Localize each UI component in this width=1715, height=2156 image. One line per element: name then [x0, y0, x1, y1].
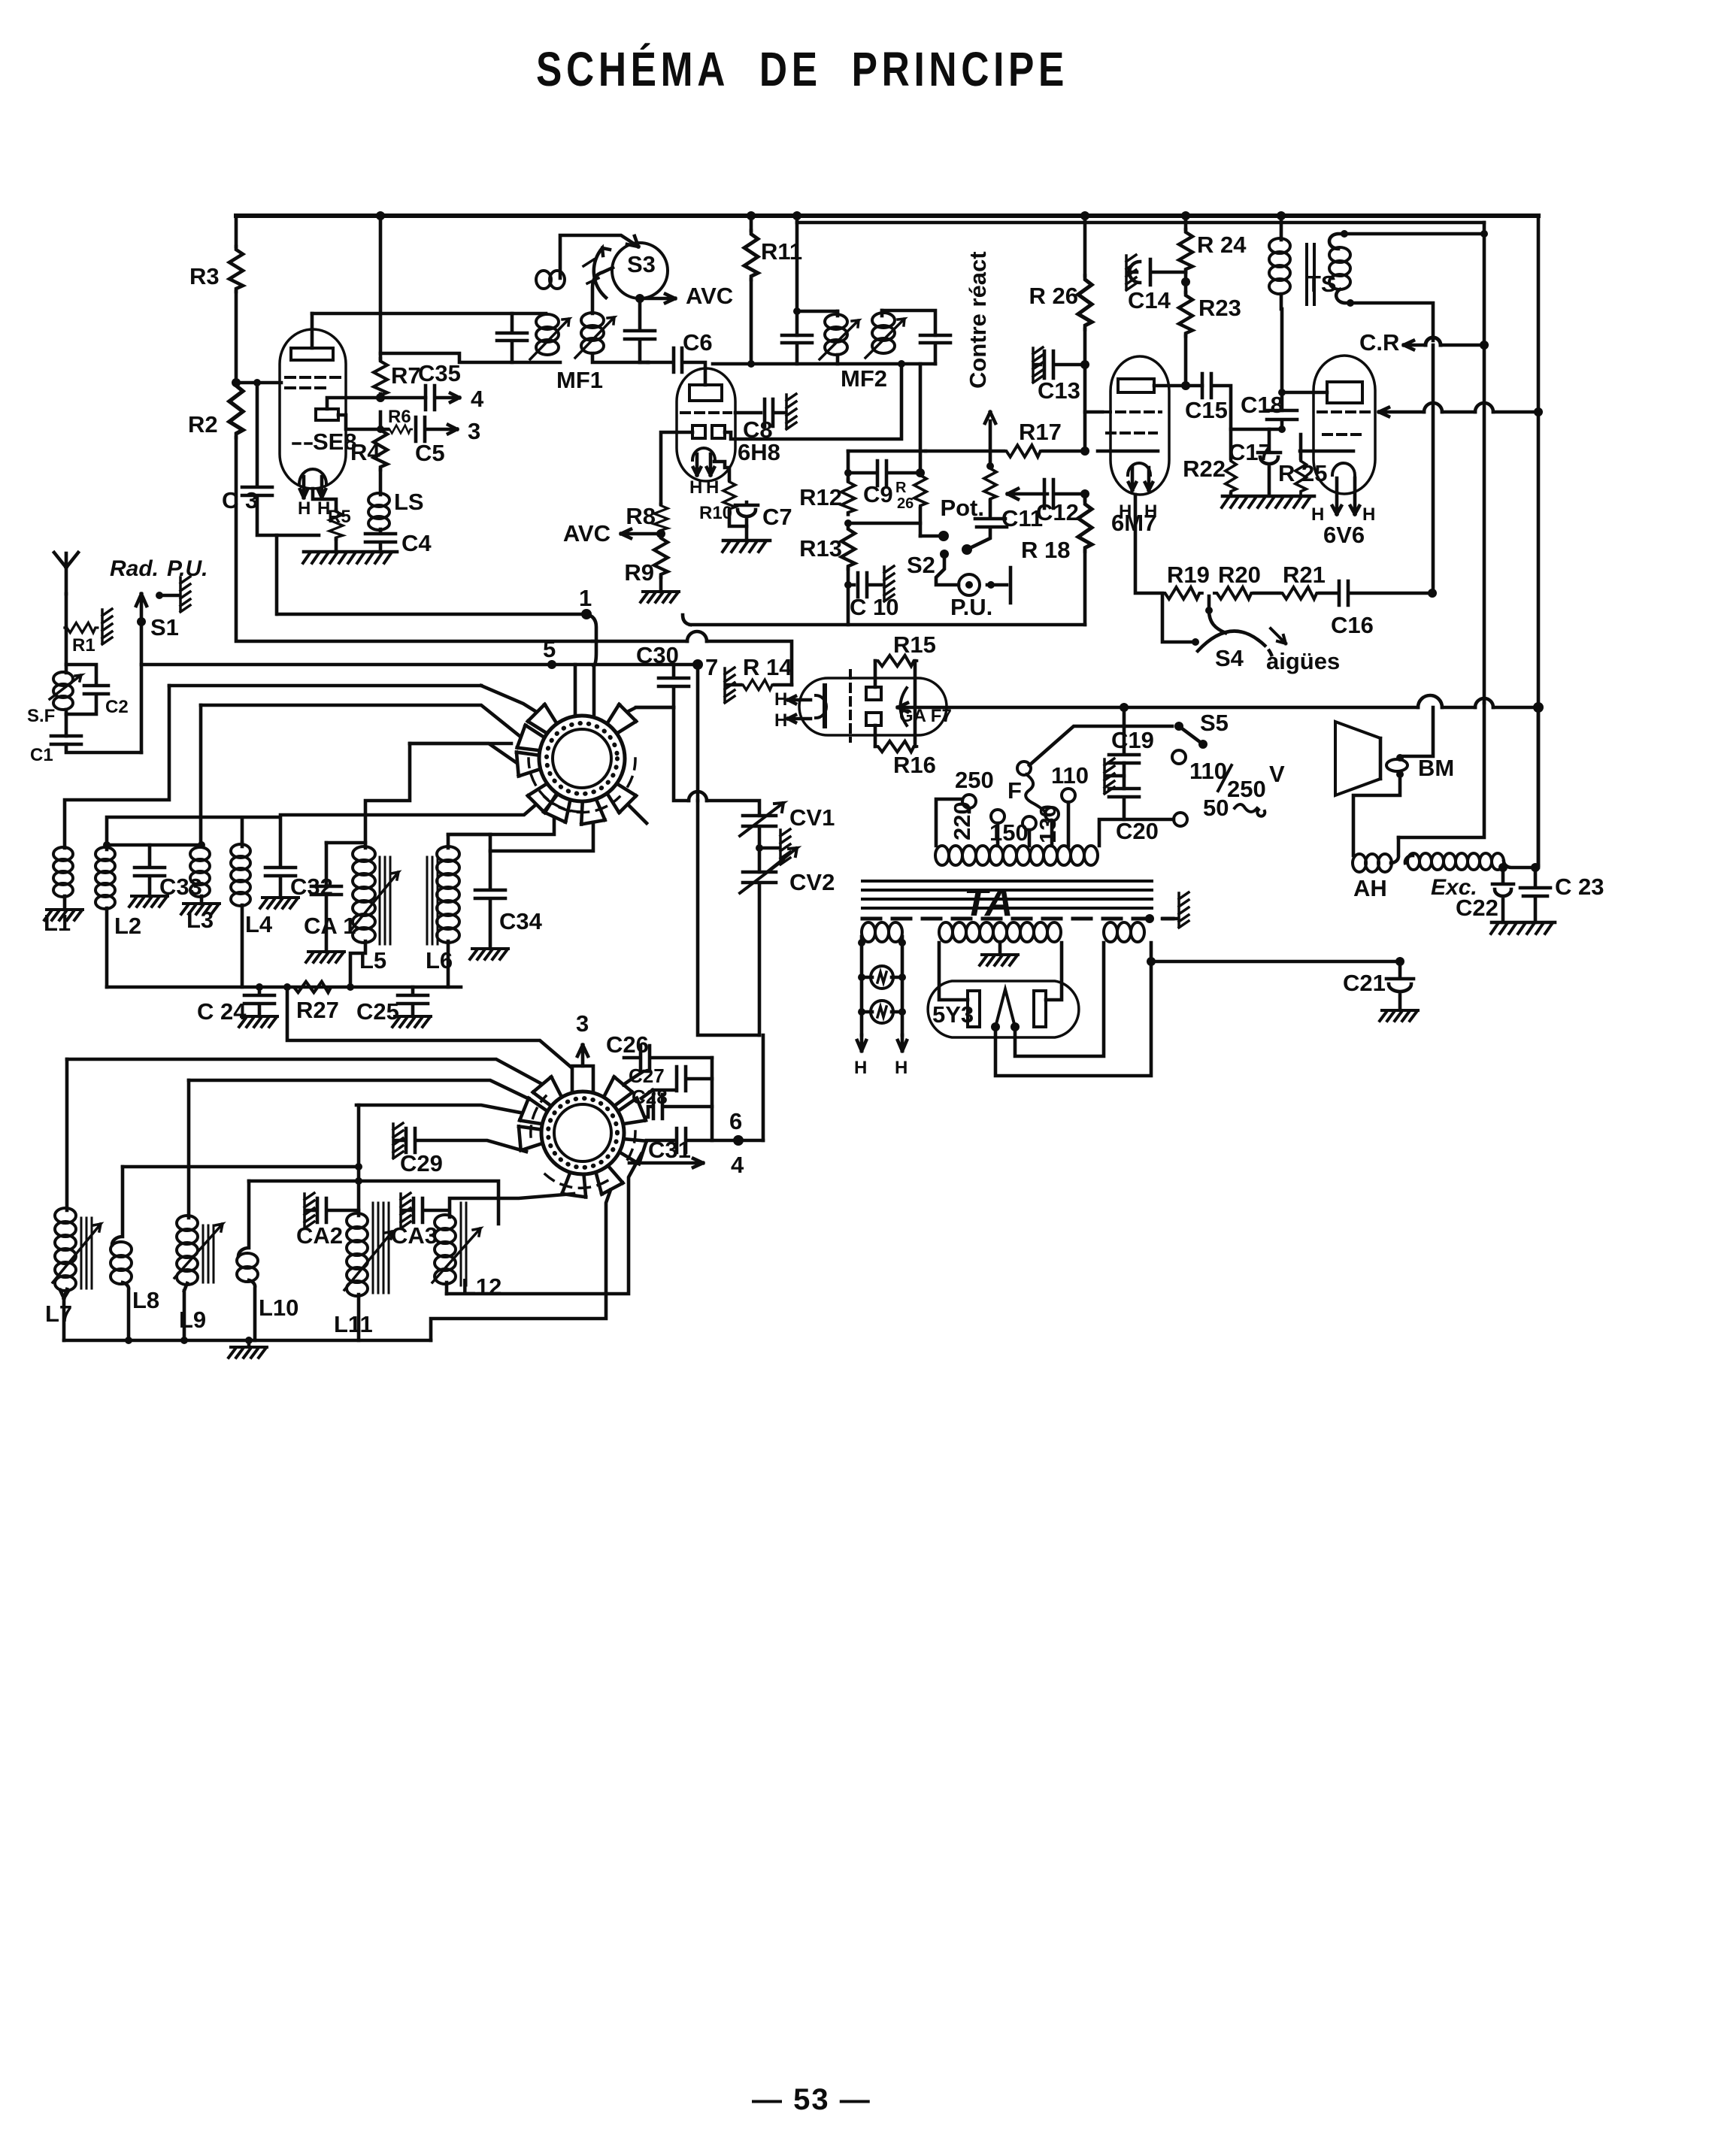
- svg-text:3: 3: [576, 1010, 589, 1037]
- wire feedback vertical: [1483, 223, 1486, 703]
- capacitor C17: [1258, 429, 1280, 494]
- svg-text:250: 250: [1227, 776, 1266, 802]
- svg-text:130: 130: [1035, 804, 1061, 843]
- capacitor C8: [735, 399, 784, 426]
- SE8 heater: [299, 469, 326, 484]
- wire line L3 feed: [201, 705, 520, 736]
- svg-text:CV1: CV1: [789, 804, 835, 831]
- capacitor C20: [1109, 789, 1174, 819]
- coil L7 with core: [65, 1059, 69, 1210]
- GAF7 plates: [866, 687, 881, 700]
- svg-text:R27: R27: [296, 997, 339, 1023]
- coil L6 with core: [437, 846, 459, 943]
- svg-text:F: F: [1007, 777, 1022, 804]
- wafer 2 paddles: [572, 1066, 593, 1092]
- resistor R1: [65, 622, 98, 632]
- svg-text:1: 1: [579, 585, 592, 611]
- svg-text:C 10: C 10: [850, 594, 898, 620]
- svg-text:H: H: [298, 498, 311, 519]
- coil TS secondary: [1329, 234, 1344, 249]
- svg-text:R10: R10: [699, 503, 732, 523]
- wire C.R line: [1404, 341, 1484, 350]
- svg-text:H: H: [774, 689, 787, 710]
- lamp dial 2: [862, 1010, 902, 1014]
- primary tap 130: [1045, 807, 1059, 821]
- svg-text:4: 4: [471, 386, 484, 412]
- svg-text:6: 6: [729, 1108, 742, 1134]
- wire TS sec bottom: [1350, 303, 1433, 341]
- capacitor C13: [1033, 347, 1043, 383]
- svg-text:L6: L6: [426, 947, 453, 974]
- SE8 anode: [291, 348, 333, 360]
- wire 6M7 cathode to R19 chain: [1135, 495, 1162, 593]
- coil TS primary: [1280, 216, 1283, 240]
- capacitor MF1 tuning: [497, 313, 527, 362]
- capacitor C33: [135, 845, 165, 896]
- resistor R24: [1179, 229, 1192, 272]
- wire grid lead: [236, 381, 281, 385]
- wire bus1 bottom: [277, 613, 586, 616]
- wire TS sec top: [1344, 232, 1484, 236]
- svg-text:R19: R19: [1167, 562, 1210, 588]
- svg-text:AVC: AVC: [686, 283, 733, 309]
- svg-text:H: H: [706, 477, 719, 498]
- capacitor C24: [256, 983, 354, 991]
- svg-text:R7: R7: [391, 362, 421, 389]
- coil L8: [112, 1167, 123, 1245]
- svg-text:TA: TA: [964, 881, 1013, 925]
- resistor R20: [1214, 587, 1254, 599]
- svg-text:S5: S5: [1200, 710, 1229, 736]
- svg-text:R21: R21: [1283, 562, 1326, 588]
- svg-text:L7: L7: [45, 1301, 72, 1327]
- 6V6 anode: [1327, 382, 1362, 403]
- ground 6H8 cathode: [723, 539, 770, 543]
- capacitor C31: [647, 1128, 712, 1152]
- svg-text:5: 5: [543, 636, 556, 662]
- wire line L5 feed to wafer left: [410, 742, 511, 746]
- node pot top junction: [986, 462, 994, 470]
- svg-text:H: H: [854, 1058, 867, 1078]
- resistor R12: [841, 480, 855, 515]
- svg-text:S4: S4: [1215, 645, 1244, 671]
- svg-text:C31: C31: [648, 1137, 691, 1163]
- svg-text:C20: C20: [1116, 818, 1159, 844]
- wire wafer line to CV1: [674, 707, 759, 816]
- wire grid line into eye: [898, 703, 907, 712]
- resistor R3: [229, 247, 243, 292]
- wire rail to wafer2 top: [287, 987, 571, 1067]
- svg-text:C9: C9: [863, 481, 893, 507]
- svg-text:C 24: C 24: [197, 998, 247, 1025]
- svg-text:R22: R22: [1183, 456, 1226, 482]
- wire cap bus to node 6: [712, 1058, 763, 1140]
- AVC arrow left: [621, 529, 661, 538]
- primary tap 220: [991, 810, 1004, 823]
- coil AH: [1353, 854, 1392, 872]
- svg-text:R1: R1: [72, 635, 95, 656]
- wire lower bank interconnects: [123, 1165, 359, 1169]
- 6M7 grid dashed: [1102, 412, 1161, 433]
- fuse F: [1017, 762, 1031, 775]
- capacitor C35: [426, 386, 459, 410]
- svg-text:C.R: C.R: [1359, 329, 1399, 356]
- svg-text:AH: AH: [1353, 875, 1387, 901]
- capacitor MF1 sec tuning: [625, 298, 655, 362]
- resistor R25: [1299, 435, 1303, 459]
- svg-text:C22: C22: [1456, 895, 1498, 921]
- 6V6 grid dashed: [1318, 412, 1371, 435]
- capacitor C34: [475, 834, 505, 949]
- wire wafer1 S prong to C34: [490, 822, 593, 851]
- coil MF2 primary: [836, 311, 840, 316]
- svg-text:L11: L11: [334, 1311, 373, 1337]
- coil TA HV secondary: [939, 922, 1061, 942]
- capacitor C2: [66, 665, 108, 714]
- coil L10: [238, 1181, 249, 1256]
- trimmer CA1: [311, 843, 341, 952]
- capacitor C9 line: [848, 461, 920, 486]
- svg-text:R23: R23: [1198, 295, 1241, 321]
- svg-text:H: H: [1311, 504, 1324, 525]
- capacitor C7: [735, 502, 758, 541]
- heater arrows H H: [857, 1035, 907, 1051]
- svg-text:C19: C19: [1111, 727, 1154, 753]
- node S3 out: [635, 294, 644, 303]
- wire speaker line vertical: [1432, 345, 1435, 589]
- svg-text:C15: C15: [1185, 397, 1228, 423]
- coil L11: [357, 1105, 361, 1216]
- svg-text:110: 110: [1189, 758, 1227, 784]
- svg-text:250: 250: [955, 767, 994, 793]
- capacitor C5: [416, 417, 457, 441]
- variable capacitor CV1: [743, 816, 776, 872]
- SE8 screen rect: [316, 409, 338, 420]
- core L11/CA3: [373, 1203, 389, 1293]
- svg-text:C14: C14: [1128, 287, 1171, 313]
- wire wafer1 SSW prong to L6: [448, 819, 554, 834]
- svg-text:3: 3: [468, 418, 480, 444]
- svg-text:4: 4: [731, 1152, 744, 1178]
- svg-text:S3: S3: [627, 251, 656, 277]
- hatch between C19 C20: [1123, 763, 1126, 789]
- svg-text:C26: C26: [606, 1031, 649, 1058]
- capacitor C25: [398, 987, 428, 1016]
- svg-text:6H8: 6H8: [738, 439, 780, 465]
- resistor R11: [750, 216, 753, 231]
- wire wafer2 left lines: [67, 1059, 541, 1083]
- svg-text:S1: S1: [150, 614, 179, 640]
- svg-text:150: 150: [989, 819, 1029, 846]
- coil MF2 secondary: [880, 310, 884, 316]
- svg-text:GA F7: GA F7: [899, 706, 952, 726]
- wire MF2 sec top: [882, 310, 935, 335]
- coil BM voice coil: [1386, 759, 1407, 771]
- svg-text:H: H: [689, 477, 702, 498]
- wiper arrow from C12: [1007, 489, 1047, 499]
- capacitor C28: [645, 1095, 712, 1119]
- resistor R19: [1162, 587, 1202, 599]
- svg-text:CA 1: CA 1: [304, 913, 356, 939]
- resistor R14: [725, 668, 735, 703]
- coil L1: [53, 847, 73, 897]
- svg-text:L3: L3: [186, 907, 214, 933]
- resistor R10 cathode: [714, 462, 729, 480]
- pickup P.U. jack: [959, 574, 980, 595]
- svg-text:H: H: [895, 1058, 907, 1078]
- wire C19 top to fuse F: [1123, 707, 1126, 726]
- svg-text:MF1: MF1: [556, 367, 603, 393]
- resistor R9: [654, 535, 668, 577]
- wire triode plate lead to C5 line: [338, 415, 388, 429]
- coil S.F: [53, 672, 73, 710]
- wire node7 branch to R14: [592, 641, 792, 685]
- wafer 1 paddles: [517, 704, 636, 825]
- svg-text:S.F: S.F: [27, 706, 55, 726]
- svg-text:R8: R8: [626, 503, 656, 529]
- svg-text:C25: C25: [356, 998, 399, 1025]
- wire MF1 sec bottom: [592, 353, 648, 362]
- svg-text:R9: R9: [624, 559, 654, 586]
- svg-text:C27: C27: [629, 1064, 665, 1087]
- svg-text:R 24: R 24: [1197, 232, 1247, 258]
- variable capacitor CV2: [743, 872, 776, 1035]
- wire anode to MF1 top: [312, 312, 546, 316]
- resistor R26b (series detector): [914, 473, 926, 508]
- svg-text:C29: C29: [400, 1150, 443, 1176]
- speaker cone: [1335, 722, 1380, 795]
- wire mains feed to S5: [1029, 726, 1124, 765]
- coil MF1 primary: [536, 314, 559, 355]
- svg-text:R2: R2: [188, 411, 218, 438]
- svg-text:R16: R16: [893, 752, 936, 778]
- GAF7 heater: [816, 695, 826, 718]
- tube 6M7 envelope: [1111, 356, 1169, 495]
- tube 6H8 envelope: [677, 368, 735, 481]
- svg-text:7: 7: [705, 654, 718, 680]
- wire wafer2 NE paddle to C26: [623, 1071, 648, 1085]
- ground bar 6V6: [1223, 495, 1314, 498]
- svg-text:R 14: R 14: [743, 654, 792, 680]
- capacitor C32: [265, 868, 295, 898]
- capacitor C16: [1339, 581, 1432, 605]
- switch S3: [612, 243, 668, 298]
- resistor R2: [229, 382, 243, 438]
- rectifier 5Y3: [928, 981, 1079, 1037]
- svg-text:C35: C35: [418, 360, 461, 386]
- wire MF2 bottom line: [713, 362, 935, 366]
- coil TA primary: [935, 846, 1098, 865]
- switch S4: [1209, 596, 1226, 633]
- resistor R8: [654, 504, 668, 532]
- SE8 grid dashed: [286, 377, 340, 388]
- AVC arrow: [640, 294, 675, 303]
- coil Exc field: [1405, 854, 1413, 863]
- contact hatch R1: [102, 609, 112, 644]
- svg-text:R 26: R 26: [1029, 283, 1078, 309]
- svg-text:H: H: [774, 710, 787, 731]
- 6V6 heater: [1332, 463, 1355, 475]
- GAF7 grid dashed: [849, 671, 852, 741]
- wire node7 column to wafer2: [698, 801, 759, 1035]
- svg-text:Contre réact: Contre réact: [965, 251, 991, 389]
- capacitor C14: [1126, 255, 1136, 290]
- wire TS primary bottom to anode: [1280, 309, 1284, 410]
- svg-text:L1: L1: [44, 910, 71, 936]
- antenna: [54, 553, 78, 594]
- capacitor MF2 primary tuning: [782, 335, 812, 364]
- capacitor C21: [1386, 961, 1414, 1009]
- capacitor C26: [641, 1046, 712, 1070]
- tube 6V6 envelope: [1314, 356, 1375, 494]
- switch S2: [938, 531, 972, 559]
- wire diode left to R8: [661, 432, 692, 504]
- wire wafer1 stem from buses: [575, 665, 594, 714]
- wire wafer1 SE prong: [629, 805, 647, 823]
- wire R12 top to R17 line: [847, 451, 850, 480]
- GAF7 cathode bar: [823, 686, 827, 726]
- capacitor C30: [636, 665, 689, 707]
- wire L4 top feed: [107, 817, 280, 866]
- node junction dots on top bus: [376, 211, 1286, 220]
- svg-text:aigües: aigües: [1266, 648, 1340, 674]
- svg-text:CA2: CA2: [296, 1222, 343, 1249]
- coil TA rectifier filament secondary: [1104, 922, 1144, 942]
- svg-text:L10: L10: [259, 1295, 298, 1321]
- svg-text:R13: R13: [799, 535, 842, 562]
- capacitor C6: [648, 348, 705, 385]
- resistor R17: [1004, 445, 1043, 457]
- wire SF bottom: [65, 710, 68, 736]
- switch S5: [1174, 722, 1207, 749]
- svg-text:C16: C16: [1331, 612, 1374, 638]
- svg-text:R20: R20: [1218, 562, 1261, 588]
- coil TA heater secondary: [862, 922, 902, 942]
- wire line to wafer1 upper-left: [169, 684, 481, 688]
- svg-text:C28: C28: [632, 1086, 668, 1108]
- capacitor C27: [641, 1067, 712, 1098]
- resistor R6: [388, 425, 412, 434]
- svg-text:R3: R3: [189, 263, 220, 289]
- svg-text:C5: C5: [415, 440, 445, 466]
- svg-text:L12: L12: [462, 1273, 501, 1300]
- wire wafer2 bottom prongs: [450, 1194, 574, 1217]
- svg-text:R: R: [895, 480, 907, 496]
- trimmer CA2: [305, 1193, 314, 1228]
- svg-text:SCHÉMA DE PRINCIPE: SCHÉMA DE PRINCIPE: [536, 42, 1068, 96]
- svg-text:C6: C6: [683, 329, 713, 356]
- capacitor C22: [1492, 868, 1514, 922]
- primary tap 250: [962, 795, 976, 808]
- wire wafer1 NE paddle to C30: [629, 707, 674, 711]
- resistor R18: [1083, 494, 1087, 501]
- 6V6 cathode bar: [1300, 450, 1353, 453]
- wire L2 C33 L3 top: [107, 843, 201, 847]
- coil L9 with core: [187, 1080, 191, 1218]
- wire S3 top hook: [560, 235, 638, 278]
- svg-text:6V6: 6V6: [1323, 522, 1365, 548]
- coil L4: [241, 843, 244, 846]
- 6M7 heater: [1128, 463, 1150, 475]
- svg-text:C21: C21: [1343, 970, 1386, 996]
- svg-text:S2: S2: [907, 552, 935, 578]
- svg-text:50: 50: [1203, 795, 1229, 821]
- tube GAF7 envelope: [799, 678, 947, 735]
- svg-text:CA3: CA3: [391, 1222, 438, 1249]
- svg-text:220: 220: [949, 801, 975, 840]
- primary tap 150: [1023, 816, 1036, 830]
- svg-text:P.U.: P.U.: [167, 556, 208, 581]
- svg-text:C13: C13: [1038, 377, 1080, 404]
- svg-text:C2: C2: [105, 697, 129, 717]
- svg-text:C 3: C 3: [222, 487, 258, 513]
- svg-text:V: V: [1269, 761, 1285, 787]
- node 3 arrow: [448, 425, 457, 434]
- svg-text:R15: R15: [893, 631, 936, 658]
- coil MF1 secondary: [581, 313, 604, 353]
- capacitor C1: [51, 736, 81, 744]
- switch S1: [136, 594, 147, 752]
- HV center tap ground: [998, 942, 1002, 953]
- capacitor C10: [848, 573, 881, 597]
- wire antenna to S.F: [65, 628, 68, 673]
- wire node 1 jog to stem: [586, 614, 596, 666]
- resistor R21: [1280, 587, 1320, 599]
- capacitor C15: [1202, 374, 1283, 429]
- svg-text:26: 26: [897, 495, 914, 512]
- coil S3 link: [536, 271, 565, 289]
- capacitor C12: [1044, 480, 1085, 508]
- node 4 arrow: [629, 1158, 703, 1167]
- svg-text:L5: L5: [359, 947, 386, 974]
- capacitor C23: [1520, 868, 1550, 922]
- wire bottom rail upper bank: [107, 986, 461, 989]
- svg-text:L4: L4: [245, 911, 273, 937]
- resistor R16: [874, 725, 877, 746]
- resistor R13: [841, 526, 855, 569]
- wire tone bus: [898, 706, 1538, 710]
- wafer 1 rings: [539, 716, 625, 801]
- capacitor C18: [1267, 410, 1297, 429]
- wire wafer1 NW paddle to line: [481, 686, 535, 711]
- resistor R23: [1179, 292, 1192, 336]
- 6H8 heater: [692, 448, 715, 460]
- 6V6 grid feedback arrow: [1379, 407, 1538, 416]
- svg-text:L2: L2: [114, 913, 141, 939]
- svg-text:R17: R17: [1019, 419, 1062, 445]
- svg-text:C1: C1: [30, 745, 53, 765]
- capacitor MF2 secondary tuning: [920, 335, 950, 364]
- wire antenna lead: [65, 594, 68, 628]
- resistor R27: [291, 982, 334, 992]
- primary tap 110: [1062, 789, 1075, 802]
- GAF7 target: [901, 688, 907, 725]
- wire line 5: [141, 663, 698, 667]
- wire second top rail: [797, 221, 1484, 225]
- wire HT+ out: [1147, 957, 1156, 966]
- wire ground rail lower bank: [64, 1339, 431, 1343]
- capacitor C19: [1109, 726, 1172, 763]
- svg-text:C17: C17: [1229, 439, 1271, 465]
- svg-text:C12: C12: [1036, 499, 1079, 525]
- wire left column: [235, 216, 238, 247]
- svg-text:LS: LS: [394, 489, 424, 515]
- svg-text:R5: R5: [328, 507, 351, 527]
- 6M7 anode: [1118, 379, 1154, 392]
- capacitor C4: [365, 529, 395, 552]
- wire R2 bottom to bus1: [236, 438, 592, 641]
- svg-text:L8: L8: [132, 1287, 159, 1313]
